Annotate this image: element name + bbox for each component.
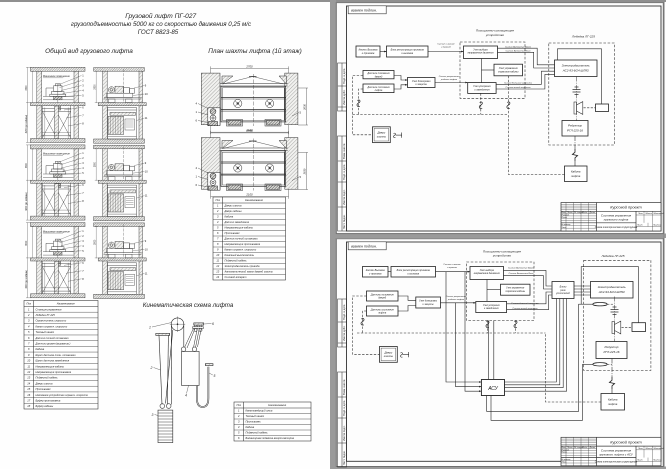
svg-text:Буфер противовеса: Буфер противовеса <box>36 398 61 402</box>
bottom gray edge of right sheets <box>336 467 666 469</box>
svg-text:6: 6 <box>212 322 214 326</box>
svg-text:и вызовов: и вызовов <box>401 52 413 55</box>
svg-text:Канат огранич. скорости: Канат огранич. скорости <box>225 248 257 252</box>
wire reducer to cabin with Z break <box>574 136 576 149</box>
svg-text:Узел блокировки: Узел блокировки <box>419 301 438 303</box>
block B1: Кнопки вызовов и приказов <box>356 46 380 57</box>
svg-text:Сигнал Включения Вверх: Сигнал Включения Вверх <box>508 268 535 270</box>
block B4b <box>367 306 399 316</box>
svg-text:Канат огранич. скорости: Канат огранич. скорости <box>36 324 68 328</box>
svg-text:устройство: устройство <box>492 253 511 257</box>
svg-text:РГЛ-225-16: РГЛ-225-16 <box>604 350 620 354</box>
svg-text:грузового лифта с АСУ: грузового лифта с АСУ <box>599 453 634 457</box>
brake symbol <box>573 87 581 95</box>
svg-text:4: 4 <box>185 394 187 398</box>
counterweight suspension beam <box>156 333 170 335</box>
svg-text:Направляющие противовеса: Направляющие противовеса <box>36 370 72 374</box>
dashed link pulley-tacho <box>584 107 596 109</box>
svg-text:АС2-93-6/24 ШЛ93: АС2-93-6/24 ШЛ93 <box>562 69 589 73</box>
reducer block <box>562 121 588 137</box>
reducer block (bottom) <box>596 342 627 359</box>
wire B1-B2 <box>380 51 387 53</box>
block B5: Узел блокировки и защиты <box>408 78 436 88</box>
pulley (bottom) <box>612 321 621 334</box>
ACS top input wires <box>446 272 583 421</box>
B3b/B4b dashed stubs <box>353 296 380 354</box>
svg-text:5: 5 <box>214 374 216 378</box>
PSU dashed box (bottom) <box>467 262 535 321</box>
svg-text:Шунт датчика замедления: Шунт датчика замедления <box>36 359 70 363</box>
elevation row 3 <box>26 223 148 299</box>
parts table left <box>24 301 98 410</box>
svg-text:лифта: лифта <box>377 312 387 315</box>
svg-text:лифта: лифта <box>570 174 581 178</box>
cabin box <box>182 351 200 385</box>
svg-text:Двери шахты: Двери шахты <box>35 381 53 385</box>
block B1b: Кнопки вызовов и приказов <box>363 267 389 278</box>
svg-text:Датчик замедления: Датчик замедления <box>224 220 250 224</box>
Лебедка dashed box <box>549 43 615 145</box>
svg-text:Кабина: Кабина <box>246 425 255 429</box>
svg-text:Поз: Поз <box>27 302 32 306</box>
leader number 1 <box>152 323 172 328</box>
svg-text:и замедления: и замедления <box>474 88 490 91</box>
svg-text:АСУ: АСУ <box>487 386 498 392</box>
wire B5b-U3b with label <box>441 302 476 304</box>
svg-text:направления движения: направления движения <box>474 272 501 275</box>
svg-text:Поз: Поз <box>237 403 242 407</box>
loop wire motor to tacho <box>558 49 602 104</box>
svg-text:Лебедка ЛГ-225: Лебедка ЛГ-225 <box>35 313 56 317</box>
svg-text:тормозом кабины: тормозом кабины <box>498 70 519 73</box>
dashed feedback cabin to bus <box>353 76 565 175</box>
balanced suspension mount <box>194 323 204 325</box>
Лебедка dashed box (bottom) <box>584 260 651 370</box>
svg-text:Электродвигатель привода: Электродвигатель привода <box>225 264 260 268</box>
inner drawing frame (top) <box>347 6 662 231</box>
signal wires U1,U3 to motor <box>496 48 554 89</box>
PSU bottom stubs <box>480 93 482 114</box>
svg-text:Сигнал Включения Вниз: Сигнал Включения Вниз <box>509 273 534 275</box>
svg-text:Датчики положения: Датчики положения <box>367 73 391 75</box>
gray separator between left and right sheets <box>330 0 336 469</box>
parts table plan <box>213 197 286 280</box>
block B2: Блок регистрации приказов и вызовов <box>387 46 429 57</box>
title block doc name (bottom) <box>595 449 638 464</box>
sheet outer edge (top) <box>336 3 663 234</box>
tacho block (bottom) <box>632 323 646 332</box>
svg-text:Кабина: Кабина <box>608 397 618 401</box>
Двери шахты block <box>373 127 391 143</box>
wires B3b,B4b to B5b <box>398 296 416 311</box>
wires relay to motor <box>574 286 591 295</box>
svg-text:работы лифта: работы лифта <box>447 298 465 301</box>
svg-text:Схема электрическая структурна: Схема электрическая структурная <box>595 226 638 229</box>
svg-text:дверей: дверей <box>378 297 387 300</box>
svg-text:Подвесной кабель: Подвесной кабель <box>246 431 269 435</box>
PSU bottom stubs (bottom) <box>487 321 489 334</box>
block B2b: Блок регистрации приказов и вызовов <box>391 267 436 278</box>
wire B2b-U1b with label <box>436 271 471 273</box>
svg-text:работы лифта: работы лифта <box>440 78 458 81</box>
sensor oval 1 <box>593 303 607 306</box>
sheet frame (bottom) <box>338 242 387 467</box>
svg-text:Наименование: Наименование <box>57 302 75 306</box>
motor block (bottom) <box>591 282 634 299</box>
sensor oval 2 <box>593 363 607 366</box>
block B3b <box>367 291 399 301</box>
svg-text:Сигнал Включения Вниз: Сигнал Включения Вниз <box>506 51 531 53</box>
squiggle stubs (bottom) <box>486 321 489 328</box>
svg-text:Поз: Поз <box>216 198 221 202</box>
squiggle on left stub <box>357 100 360 107</box>
svg-text:Тяговый канат: Тяговый канат <box>246 414 266 418</box>
svg-text:Наименование: Наименование <box>245 198 263 202</box>
shaft centerline <box>576 77 578 121</box>
svg-text:и приказе: и приказе <box>441 47 452 49</box>
inner drawing frame (bottom) <box>347 242 662 461</box>
plan view 1 <box>196 64 309 134</box>
svg-text:Кабина: Кабина <box>36 347 45 351</box>
title block (top) <box>561 203 664 232</box>
rope from sheave to counterweight pulleys <box>166 330 173 404</box>
motor block <box>555 60 598 77</box>
svg-text:усилителей: усилителей <box>555 292 570 295</box>
svg-text:Станция управления: Станция управления <box>36 307 63 311</box>
svg-text:лифта: лифта <box>374 89 383 92</box>
wire reducer to cabin with Z break (bottom) <box>611 359 613 378</box>
squiggle on stub 1 <box>479 102 482 109</box>
svg-text:Противовес: Противовес <box>246 420 262 424</box>
svg-text:2: 2 <box>150 366 153 370</box>
relay block <box>552 282 574 299</box>
svg-text:Лебедка ЛГ-225: Лебедка ЛГ-225 <box>571 35 595 39</box>
svg-text:РГЛ-225-16: РГЛ-225-16 <box>567 129 583 133</box>
svg-text:Шунт датчика точн. остановки: Шунт датчика точн. остановки <box>36 353 77 357</box>
svg-text:грузоподъемностью 5000 кг со с: грузоподъемностью 5000 кг со скоростью д… <box>71 21 252 28</box>
svg-text:3: 3 <box>152 413 154 417</box>
svg-text:и защиты: и защиты <box>415 83 427 86</box>
svg-text:Лебедка ЛГ-225: Лебедка ЛГ-225 <box>600 254 624 258</box>
loop wire motor to tacho (bottom) <box>581 267 638 323</box>
svg-text:АС2-93-6/24 ШЛ93: АС2-93-6/24 ШЛ93 <box>598 290 625 294</box>
svg-text:ГОСТ 8823-85: ГОСТ 8823-85 <box>138 29 179 36</box>
elevation row 1 <box>26 67 148 143</box>
svg-text:и приказов: и приказов <box>369 273 382 276</box>
tacho block <box>596 104 609 112</box>
svg-text:План шахты лифта (1й этаж): План шахты лифта (1й этаж) <box>208 47 302 55</box>
svg-text:Сигнал Включения Вверх: Сигнал Включения Вверх <box>505 46 532 48</box>
svg-text:Противовес: Противовес <box>225 231 241 235</box>
block U1b <box>470 267 504 280</box>
break tick (bottom) <box>401 352 409 357</box>
svg-text:Направляющие противовеса: Направляющие противовеса <box>225 242 261 246</box>
svg-text:Двери кабины: Двери кабины <box>224 209 242 213</box>
svg-text:устройство: устройство <box>485 33 504 37</box>
svg-text:Сигнал разрешения: Сигнал разрешения <box>446 296 467 298</box>
svg-text:и защиты: и защиты <box>423 304 434 306</box>
ACS right output wires to relay bottom <box>505 299 557 383</box>
counterweight body <box>158 410 173 443</box>
svg-text:Конечный выключатель: Конечный выключатель <box>225 253 255 257</box>
svg-text:Сигнал о вызове: Сигнал о вызове <box>437 44 455 46</box>
plan view 2 <box>196 129 309 199</box>
svg-text:Сигнал малой скорости: Сигнал малой скорости <box>513 307 539 310</box>
shaft centerline (bottom) <box>614 297 616 342</box>
block U1: Узел выбора направления движения <box>464 46 498 59</box>
counterweight pulleys <box>160 404 165 409</box>
svg-text:и приказе: и приказе <box>447 267 458 269</box>
svg-text:Сигнал о вызове: Сигнал о вызове <box>443 264 461 266</box>
rope sheave to cabin <box>183 325 185 348</box>
svg-text:Датчики уровня (выравнив.): Датчики уровня (выравнив.) <box>35 342 71 346</box>
block U2: Узел управления тормозом кабины <box>494 64 523 76</box>
block B5b <box>416 297 441 308</box>
brake symbol (bottom) <box>611 307 619 315</box>
svg-text:направления движения: направления движения <box>468 52 495 55</box>
ACS left input wires <box>446 272 481 382</box>
sheet frame (top) <box>338 6 387 231</box>
svg-text:Подвесной кабель: Подвесной кабель <box>36 376 59 380</box>
squiggle on stub 2 <box>507 102 510 109</box>
balanced suspension links <box>185 325 204 348</box>
svg-text:Ограничитель скорости: Ограничитель скорости <box>36 319 67 323</box>
traction sheave <box>171 318 184 331</box>
svg-text:Датчик точной остановки: Датчик точной остановки <box>224 237 259 241</box>
svg-text:Кинематическая схема лифта: Кинематическая схема лифта <box>143 302 234 309</box>
signal wires U1b,U3b to relay block <box>504 270 552 309</box>
svg-text:и приказов: и приказов <box>362 52 375 55</box>
dashed link pulley-tacho (bottom) <box>622 326 633 328</box>
block U3: Узел ускорения и замедления <box>468 83 496 94</box>
elevation row 2 <box>26 145 148 221</box>
ACS block <box>481 380 504 396</box>
svg-text:Редуктор: Редуктор <box>605 345 619 349</box>
svg-text:Датчик точной остановки: Датчик точной остановки <box>35 336 70 340</box>
svg-text:Электродвигатель: Электродвигатель <box>598 285 626 289</box>
svg-text:Двери шахты: Двери шахты <box>224 204 242 208</box>
right edge gray line <box>663 2 665 467</box>
svg-text:Схема электрическая структурна: Схема электрическая структурная <box>595 461 638 464</box>
dashed feedback cabin to bus (bottom) <box>353 296 602 402</box>
counterweight ropes <box>159 335 162 404</box>
wire U1-U3 vertical <box>482 59 495 83</box>
svg-text:и вызовов: и вызовов <box>407 273 419 276</box>
svg-text:лифта: лифта <box>607 402 618 406</box>
travel cable bracket <box>205 364 213 366</box>
Двери шахты block (bottom) <box>380 347 398 363</box>
svg-text:Буфер кабины: Буфер кабины <box>36 404 54 408</box>
svg-text:Сигнал малой скорости: Сигнал малой скорости <box>506 86 532 89</box>
break tick right of Двери шахты <box>394 133 402 138</box>
svg-text:Балансирная подвеска амортизат: Балансирная подвеска амортизаторов <box>246 436 295 440</box>
svg-text:Электродвигатель: Электродвигатель <box>562 64 590 68</box>
svg-text:Узел управления: Узел управления <box>506 288 525 290</box>
svg-text:и замедления: и замедления <box>484 307 499 310</box>
sensor dashed links <box>607 304 614 364</box>
wire B2-U1 with label <box>428 51 464 53</box>
title block doc name (top) <box>595 214 638 229</box>
top gray edge bar <box>0 0 666 2</box>
dashed bus <box>353 114 509 116</box>
svg-text:Направляющие кабины: Направляющие кабины <box>36 364 64 368</box>
svg-text:дверей: дверей <box>375 75 383 78</box>
svg-text:Сигнал большой скорости: Сигнал большой скорости <box>511 302 539 305</box>
svg-text:Канатоведущий шкив: Канатоведущий шкив <box>246 409 273 413</box>
svg-text:Кабина: Кабина <box>571 169 581 173</box>
parts table kinematic <box>234 402 311 441</box>
block U3b <box>476 302 507 313</box>
B3/B4 dashed stubs <box>353 76 372 135</box>
block U2b <box>501 284 531 295</box>
svg-text:тормозом кабины: тормозом кабины <box>505 291 525 293</box>
title block (bottom) <box>561 437 664 466</box>
sheet outer edge (bottom) <box>336 239 663 467</box>
dashed bus (bottom) <box>357 332 546 334</box>
block B3: Датчики положения дверей <box>363 71 394 79</box>
gray separator between the two right sheets <box>336 234 666 239</box>
ACS bottom wires to sensors <box>487 304 579 411</box>
cabin top sheaves <box>181 347 185 351</box>
cabin block (bottom) <box>601 394 625 411</box>
svg-text:грузового лифта: грузового лифта <box>604 218 629 222</box>
svg-text:Редуктор: Редуктор <box>568 124 582 128</box>
svg-text:1: 1 <box>149 326 151 330</box>
svg-text:Общий вид грузового лифта: Общий вид грузового лифта <box>45 47 133 55</box>
svg-text:Направляющие кабины: Направляющие кабины <box>225 226 253 230</box>
travel cable U-shape <box>197 367 209 407</box>
svg-text:Сигнал разрешения: Сигнал разрешения <box>439 76 460 78</box>
svg-text:Кабина: Кабина <box>225 215 234 219</box>
svg-text:Натяжное устройство огранич. с: Натяжное устройство огранич. скорости <box>36 393 89 397</box>
svg-text:Подвесной кабель: Подвесной кабель <box>225 259 248 263</box>
svg-text:Наименование: Наименование <box>268 403 286 407</box>
svg-text:Датчики состояния: Датчики состояния <box>367 87 391 89</box>
svg-text:Силовой аппарат: Силовой аппарат <box>225 275 248 279</box>
cabin block <box>565 166 588 182</box>
wire B5-U3 with label <box>435 82 468 84</box>
svg-text:Узел ускорения: Узел ускорения <box>483 305 500 307</box>
svg-text:Грузовой лифт ПГ-027: Грузовой лифт ПГ-027 <box>125 12 196 20</box>
wire to U2 <box>482 69 495 71</box>
block B4: Датчики состояния лифта <box>363 84 394 93</box>
svg-text:Тяговый канат: Тяговый канат <box>36 330 56 334</box>
PSU dashed box <box>460 42 525 98</box>
wires B3,B4 to B5 <box>394 76 408 90</box>
wire U1b down and to U2b <box>487 280 501 302</box>
svg-text:Автоматический замок дверей ша: Автоматический замок дверей шахты <box>224 270 273 274</box>
wire B1b-B2b <box>388 271 391 273</box>
pulley <box>574 102 583 115</box>
svg-text:Противовес: Противовес <box>36 387 52 391</box>
